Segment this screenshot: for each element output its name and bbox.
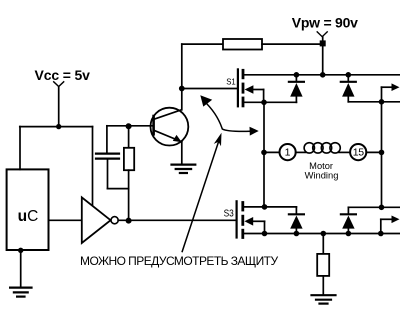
svg-text:uC: uC — [18, 208, 39, 225]
svg-text:Motor: Motor — [309, 161, 333, 171]
svg-text:МОЖНО ПРЕДУСМОТРЕТЬ ЗАЩИТУ: МОЖНО ПРЕДУСМОТРЕТЬ ЗАЩИТУ — [80, 254, 278, 268]
svg-text:S3: S3 — [224, 208, 235, 219]
svg-text:1: 1 — [285, 147, 291, 159]
svg-text:Vpw = 90v: Vpw = 90v — [292, 15, 358, 31]
svg-text:Vcc = 5v: Vcc = 5v — [35, 67, 91, 83]
svg-text:S1: S1 — [226, 78, 236, 87]
svg-text:15: 15 — [353, 146, 364, 158]
svg-text:Winding: Winding — [305, 171, 339, 181]
